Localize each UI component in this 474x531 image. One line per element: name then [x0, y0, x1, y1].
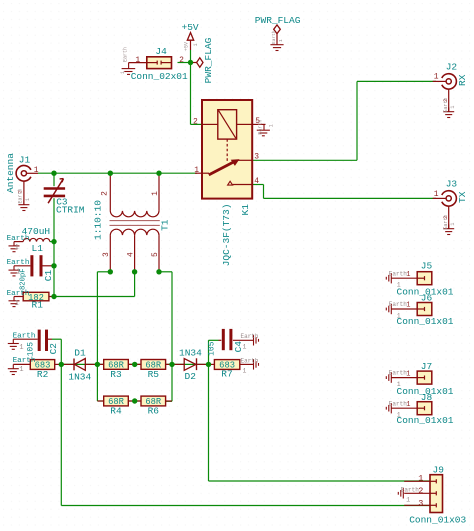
svg-text:+5V: +5V	[182, 22, 199, 33]
svg-text:1: 1	[434, 190, 439, 199]
svg-text:R2: R2	[37, 369, 49, 380]
svg-text:Earth: Earth	[7, 290, 30, 298]
svg-text:2: 2	[418, 486, 423, 496]
svg-text:Earth: Earth	[389, 400, 407, 407]
svg-text:Antenna: Antenna	[5, 153, 16, 193]
svg-text:1: 1	[243, 367, 247, 374]
svg-text:Earth: Earth	[443, 98, 449, 113]
svg-text:105: 105	[208, 341, 217, 356]
svg-text:J1: J1	[19, 154, 31, 165]
svg-text:R5: R5	[148, 369, 160, 380]
svg-text:4: 4	[127, 252, 136, 257]
svg-text:2: 2	[179, 56, 184, 65]
svg-text:RX: RX	[457, 74, 468, 86]
svg-text:Earth: Earth	[241, 357, 259, 364]
svg-text:105: 105	[27, 342, 36, 357]
svg-text:J5: J5	[421, 261, 433, 272]
svg-text:PWR_FLAG: PWR_FLAG	[255, 15, 301, 26]
svg-text:1: 1	[406, 370, 410, 378]
svg-text:1: 1	[450, 223, 456, 226]
svg-text:Earth: Earth	[7, 235, 30, 243]
svg-text:J2: J2	[446, 62, 458, 73]
svg-text:3: 3	[418, 499, 423, 509]
svg-text:R3: R3	[110, 369, 122, 380]
svg-text:Earth: Earth	[389, 370, 407, 377]
svg-text:4: 4	[254, 177, 259, 186]
svg-text:3: 3	[102, 252, 111, 257]
svg-text:C4: C4	[233, 341, 244, 353]
svg-text:T1: T1	[159, 219, 170, 231]
svg-text:Earth: Earth	[401, 487, 419, 494]
svg-text:1: 1	[34, 166, 39, 175]
svg-text:1: 1	[406, 302, 410, 310]
svg-text:1: 1	[397, 282, 401, 289]
svg-text:R7: R7	[221, 368, 232, 379]
svg-text:2: 2	[193, 117, 198, 126]
svg-text:1: 1	[268, 124, 274, 127]
svg-text:J8: J8	[421, 392, 433, 403]
svg-text:1: 1	[397, 412, 401, 419]
svg-text:1: 1	[193, 43, 199, 46]
svg-text:Earth: Earth	[18, 188, 24, 203]
svg-text:1: 1	[278, 39, 284, 42]
svg-text:1: 1	[406, 401, 410, 409]
svg-text:Earth: Earth	[389, 270, 407, 277]
svg-text:+5V: +5V	[183, 42, 189, 51]
svg-text:Earth: Earth	[241, 333, 259, 340]
svg-text:Conn_01x03: Conn_01x03	[409, 514, 466, 525]
svg-text:J7: J7	[421, 361, 432, 372]
svg-text:J4: J4	[155, 46, 167, 57]
svg-text:1: 1	[397, 381, 401, 388]
svg-text:Earth: Earth	[389, 301, 407, 308]
svg-text:Earth: Earth	[13, 357, 36, 365]
svg-text:1:10:10: 1:10:10	[93, 200, 104, 240]
svg-text:Conn_01x01: Conn_01x01	[397, 316, 454, 327]
svg-text:1: 1	[194, 166, 199, 175]
svg-text:D2: D2	[185, 371, 197, 382]
svg-text:C1: C1	[43, 269, 54, 281]
svg-text:820pF: 820pF	[19, 268, 27, 290]
svg-text:1: 1	[19, 366, 23, 374]
svg-text:Earth: Earth	[7, 259, 30, 267]
svg-text:R6: R6	[148, 406, 160, 417]
svg-text:J3: J3	[446, 179, 458, 190]
svg-text:1: 1	[15, 244, 19, 252]
svg-text:1N34: 1N34	[68, 372, 91, 383]
svg-text:1N34: 1N34	[179, 347, 202, 358]
svg-text:1: 1	[15, 300, 19, 308]
svg-text:JQC-3F(T73): JQC-3F(T73)	[221, 204, 232, 267]
svg-text:TX: TX	[457, 191, 468, 203]
svg-text:1: 1	[151, 191, 160, 196]
svg-text:1: 1	[19, 344, 23, 352]
svg-text:Conn_01x01: Conn_01x01	[397, 415, 454, 426]
svg-text:1: 1	[135, 56, 140, 65]
svg-text:1: 1	[120, 71, 126, 74]
svg-text:1: 1	[397, 312, 401, 319]
svg-text:1: 1	[418, 474, 423, 484]
svg-text:2: 2	[100, 191, 109, 196]
svg-text:Earth: Earth	[258, 120, 264, 135]
svg-text:5: 5	[151, 252, 160, 257]
svg-text:1: 1	[406, 497, 410, 504]
svg-text:L1: L1	[32, 243, 44, 254]
svg-text:3: 3	[254, 152, 259, 161]
svg-text:J6: J6	[421, 293, 433, 304]
svg-text:Earth: Earth	[13, 332, 36, 340]
svg-text:Earth: Earth	[271, 30, 277, 44]
svg-text:R1: R1	[32, 300, 44, 311]
svg-text:1: 1	[434, 73, 439, 82]
svg-text:Earth: Earth	[123, 47, 129, 62]
svg-text:J9: J9	[433, 464, 445, 475]
svg-text:R4: R4	[110, 406, 122, 417]
svg-text:CTRIM: CTRIM	[56, 205, 85, 216]
svg-text:Conn_02x01: Conn_02x01	[131, 71, 188, 82]
svg-text:C2: C2	[48, 343, 59, 355]
svg-text:Earth: Earth	[443, 215, 449, 230]
svg-text:PWR_FLAG: PWR_FLAG	[203, 37, 214, 83]
svg-text:K1: K1	[240, 204, 251, 216]
svg-text:1: 1	[25, 198, 31, 201]
svg-text:1: 1	[406, 271, 410, 279]
svg-text:1: 1	[450, 106, 456, 109]
svg-text:D1: D1	[74, 347, 86, 358]
